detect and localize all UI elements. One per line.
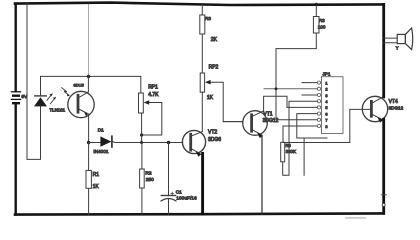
wire JP1 pin2 row — [264, 88, 317, 90]
svg-text:100: 100 — [318, 24, 326, 29]
svg-text:2K: 2K — [211, 37, 218, 43]
wire LED loop: rail down x27, bottom, up to LED anode — [27, 3, 41, 159]
diode D1 IN4001 — [100, 136, 112, 147]
svg-text:100uF/16: 100uF/16 — [176, 196, 197, 201]
wire left border (battery column) — [14, 4, 16, 215]
svg-text:250: 250 — [146, 177, 154, 183]
potentiometer RP1 4.7K — [139, 93, 162, 135]
wire phototransistor emitter down to base node — [88, 114, 90, 143]
wire dangling stub from y138 — [303, 138, 305, 175]
label pin numbers 1-8 — [325, 80, 328, 128]
svg-text:VT1: VT1 — [263, 112, 272, 118]
node junction dot at (316.3,4.4) — [315, 3, 318, 6]
wire base node row y142 from D1 to VT2 base — [113, 141, 183, 144]
svg-text:R2: R2 — [145, 170, 151, 176]
LED VD TLN101 — [34, 94, 56, 107]
wire JP1 pin6 row and down column — [297, 114, 327, 138]
wire VT4 base route from R6 top node — [283, 109, 370, 142]
faint page artifact — [345, 217, 366, 219]
svg-text:1K: 1K — [207, 95, 214, 101]
wire top supply rail — [15, 3, 384, 5]
wire RP2 bottom to VT2 collector — [201, 92, 203, 131]
svg-text:7: 7 — [325, 118, 327, 123]
resistor R3 2K — [200, 15, 205, 34]
battery B 6V — [11, 92, 20, 103]
svg-text:2: 2 — [325, 87, 327, 92]
wire JP1 pin4 row and down column — [283, 101, 318, 175]
wire R3 column from top rail — [201, 5, 203, 73]
wire phototransistor collector feed from top rail — [88, 3, 90, 77]
svg-text:Y: Y — [396, 46, 399, 51]
svg-text:3DU5: 3DU5 — [74, 82, 85, 87]
wire R3b to pin2/pin7 column — [276, 33, 316, 120]
wire JP1 pin8 row — [283, 126, 317, 142]
svg-text:R1: R1 — [93, 172, 100, 178]
resistor R1 1K — [86, 170, 91, 188]
svg-text:1: 1 — [325, 80, 327, 85]
svg-text:R3: R3 — [205, 16, 211, 22]
connector JP1 — [317, 77, 343, 134]
wire VT2 emitter thick to ground rail — [201, 153, 204, 214]
node junction dot at (141.6,135) — [140, 133, 143, 136]
wire VT1 emitter to ground rail — [261, 135, 263, 214]
svg-text:3DG12: 3DG12 — [389, 106, 404, 111]
wire JP1 pin3 stub — [302, 94, 317, 96]
resistor R2 250 — [140, 169, 145, 188]
wire VT1 collector staircase to JP1 pin5 — [264, 96, 318, 111]
svg-text:TLN101: TLN101 — [50, 107, 66, 112]
wire LED cathode up to node row y76 — [40, 76, 42, 95]
node junction dot at (168.5,142.5) — [167, 141, 170, 144]
transistor VT2 3DG6 — [182, 130, 205, 156]
svg-text:8: 8 — [325, 124, 327, 129]
resistor R6 330K — [281, 142, 285, 162]
wire right border thick upper (collector column) — [382, 4, 385, 96]
svg-text:R3: R3 — [319, 18, 325, 23]
resistor R3b 100 — [313, 17, 319, 34]
svg-text:JP1: JP1 — [322, 72, 330, 77]
wire JP1 pin1 stub — [302, 82, 317, 84]
wire right border thick lower (emitter to ground) — [382, 119, 385, 213]
svg-text:330K: 330K — [286, 149, 296, 154]
wire R1 column — [88, 143, 90, 215]
wire sensor row y76 from LED to RP1 — [41, 75, 141, 77]
svg-text:RP1: RP1 — [148, 85, 158, 91]
potentiometer RP2 1K — [200, 73, 243, 122]
svg-text:VT4: VT4 — [389, 99, 398, 105]
wire base node row y142 left part — [89, 142, 100, 144]
svg-text:RP2: RP2 — [209, 64, 219, 70]
svg-text:6: 6 — [325, 111, 327, 116]
node junction dot at (141.6,142.5) — [140, 141, 143, 144]
svg-text:1K: 1K — [93, 184, 100, 190]
capacitor C1 100uF/16 electrolytic — [161, 192, 176, 214]
svg-text:5: 5 — [325, 105, 327, 110]
svg-text:VT2: VT2 — [208, 130, 217, 136]
svg-text:D1: D1 — [98, 128, 104, 133]
node junction dot at (276,88.8) — [275, 87, 278, 90]
svg-text:C1: C1 — [176, 189, 182, 194]
phototransistor VT 3DU — [62, 76, 95, 117]
wire JP1 pin7 row — [276, 119, 317, 121]
svg-text:R6: R6 — [285, 143, 291, 148]
speaker Y — [384, 28, 413, 50]
transistor VT1 3DG12 — [243, 111, 268, 138]
svg-text:3DG6: 3DG6 — [208, 137, 221, 143]
wire C1 top lead — [168, 143, 170, 196]
wire bottom ground rail — [15, 213, 384, 214]
svg-text:3: 3 — [325, 93, 327, 98]
wire RP1 bottom lead to base row — [141, 113, 143, 143]
node junction dot at (88.5,76.4) — [87, 75, 90, 78]
wire RP1 top lead from row y76 — [140, 76, 142, 93]
svg-text:4.7K: 4.7K — [148, 92, 159, 98]
node junction dot at (88.6,142.5) — [87, 141, 90, 144]
connector tick marks on lower wire — [381, 195, 386, 207]
wire VT1 base row — [223, 121, 242, 123]
wire R2 column — [141, 143, 143, 215]
svg-text:IN4001: IN4001 — [93, 149, 109, 154]
wire R3b top lead from rail — [315, 4, 317, 16]
transistor VT4 3DG12 — [362, 96, 387, 122]
